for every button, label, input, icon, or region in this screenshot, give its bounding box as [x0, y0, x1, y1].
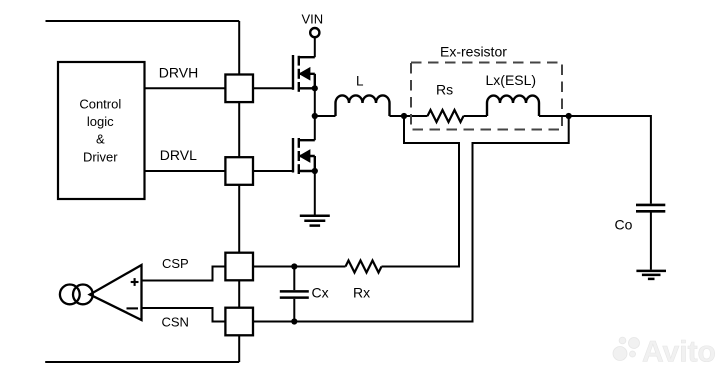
svg-text:CSN: CSN	[162, 315, 189, 330]
svg-text:Control: Control	[79, 97, 121, 112]
svg-text:Cx: Cx	[312, 285, 329, 301]
node: Q2 source junction	[312, 168, 318, 174]
pad DRVH	[225, 75, 253, 103]
node A (left sense node)	[401, 113, 407, 119]
svg-text:L: L	[356, 74, 364, 89]
resistor Rx	[346, 261, 382, 273]
wire: Cx top lead	[293, 267, 295, 291]
svg-text:&: &	[96, 132, 105, 147]
capacitor Co	[636, 205, 665, 211]
current source symbol circle 2	[73, 285, 93, 305]
ground (output)	[636, 271, 666, 279]
current source symbol circle 1	[60, 285, 80, 305]
svg-text:CSP: CSP	[162, 256, 189, 271]
svg-text:Co: Co	[615, 217, 633, 233]
wire: Lx to node B	[539, 115, 569, 117]
node: Q1 source junction	[312, 85, 318, 91]
wire: Rx right side to corner up	[382, 116, 460, 267]
op-amp minus input mark	[127, 307, 139, 309]
wire: vertical trunk through pads	[238, 21, 240, 362]
wire: top horizontal into trunk	[46, 20, 240, 22]
node B (right sense node)	[566, 113, 572, 119]
svg-text:Driver: Driver	[83, 149, 118, 164]
transistor Q1 (high-side NMOS)	[293, 55, 315, 92]
op-amp plus input mark	[131, 278, 139, 286]
wire: Co to ground	[650, 213, 652, 270]
wire: node A into Ex-resistor box	[404, 115, 428, 117]
wire: node B to output cap corner	[569, 116, 651, 204]
wire: Rs to Lx	[464, 115, 488, 117]
Ex-resistor dashed box	[411, 63, 562, 130]
control box	[58, 62, 145, 199]
svg-text:DRVL: DRVL	[160, 147, 197, 163]
wire: CSP from amp + input with jog up to CSP pad	[142, 267, 225, 281]
wire: switch node to inductor	[315, 115, 336, 117]
ground (power stage)	[300, 216, 330, 226]
capacitor Cx	[280, 291, 309, 297]
wire: Cx bottom lead	[293, 299, 295, 322]
wire: bottom horizontal into trunk	[45, 361, 239, 363]
wire: inductor to node A	[390, 115, 405, 117]
wire: CSP net to Rx and right corner	[253, 266, 346, 268]
wire: CSN from amp - input with jog down to CSN pad	[142, 308, 225, 322]
wire: CSN net from pad to far corner	[253, 116, 569, 322]
wire: DRVH line from control box to Q1 gate	[145, 87, 294, 89]
svg-text:DRVH: DRVH	[159, 65, 198, 81]
svg-text:Ex-resistor: Ex-resistor	[440, 44, 507, 60]
op-amp U1 (current sense gm amp, pointing left)	[90, 265, 142, 320]
node: Cx top junction	[291, 263, 297, 269]
VIN terminal	[310, 28, 319, 37]
svg-text:Lx(ESL): Lx(ESL)	[486, 72, 537, 88]
svg-text:Avito: Avito	[642, 336, 716, 369]
node: Cx bottom junction	[291, 318, 297, 324]
svg-text:VIN: VIN	[302, 12, 324, 27]
svg-text:logic: logic	[87, 114, 114, 129]
resistor Rs	[428, 110, 464, 122]
watermark Avito logo bubbles	[613, 337, 640, 360]
pad DRVL	[225, 157, 253, 185]
wire: switch node down to Q2 drain	[314, 116, 316, 140]
svg-text:Rs: Rs	[436, 82, 453, 98]
wire: Q1 source to switch node	[314, 88, 316, 116]
inductor L	[336, 95, 390, 116]
wire: DRVL line from control box to Q2 gate	[145, 170, 294, 172]
node: switch node	[312, 113, 318, 119]
wire: Q2 source to ground	[314, 171, 316, 216]
pad CSN	[225, 308, 253, 336]
wire: VIN to Q1 drain	[314, 37, 316, 57]
svg-text:Rx: Rx	[353, 285, 370, 301]
transistor Q2 (low-side NMOS)	[293, 138, 315, 174]
inductor Lx(ESL)	[487, 96, 539, 116]
pad CSP	[225, 253, 253, 281]
